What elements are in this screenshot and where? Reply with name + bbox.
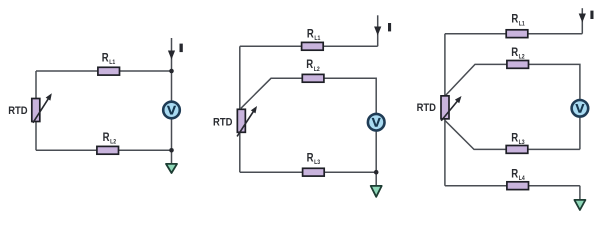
resistor RL3 — [506, 146, 528, 154]
label RL1 — [307, 28, 321, 42]
node: junction top right — [169, 69, 174, 74]
current arrow I (down) — [374, 27, 381, 36]
label RL1 — [102, 53, 116, 67]
svg-text:L2: L2 — [314, 66, 320, 73]
wire: ground stem — [579, 186, 581, 200]
ground (circuit 1) — [166, 164, 177, 173]
svg-text:R: R — [307, 28, 314, 40]
resistor RL2 — [302, 74, 324, 82]
wire: ground stem — [171, 150, 173, 163]
svg-text:R: R — [307, 153, 314, 165]
svg-text:RTD: RTD — [8, 105, 27, 117]
label RL1 — [511, 14, 524, 28]
svg-text:R: R — [102, 53, 109, 65]
wire: left vertical (RTD branch) — [35, 71, 37, 150]
resistor RL2 — [97, 146, 119, 154]
wire: diagonal RTD top to RL2 row — [445, 64, 580, 149]
svg-text:L2: L2 — [110, 139, 116, 146]
resistor RL4 — [507, 182, 529, 190]
svg-text:L1: L1 — [519, 20, 525, 27]
svg-text:L4: L4 — [519, 175, 525, 182]
node: junction bottom right — [169, 148, 174, 153]
label RL2 — [306, 59, 320, 73]
wire: current-in vertical — [581, 8, 583, 34]
wire: left vertical (RTD branch) — [239, 46, 241, 172]
voltmeter V3 — [572, 100, 589, 117]
label RL4 — [511, 169, 525, 183]
voltmeter V2 — [368, 114, 385, 131]
wire: current-in vertical — [377, 15, 379, 46]
voltmeter V1 — [163, 102, 180, 119]
svg-text:L1: L1 — [314, 35, 320, 42]
svg-text:L3: L3 — [519, 139, 525, 146]
label RL3 — [511, 132, 525, 146]
current arrow I (down) — [168, 51, 175, 60]
wire: right vertical (current in / voltmeter branch) — [171, 38, 173, 150]
resistor RL1 — [506, 30, 528, 38]
wire: left vertical (RTD branch) — [444, 34, 446, 186]
node: junction bottom right — [374, 170, 379, 175]
wire: ground stem — [375, 172, 377, 185]
RTD element (variable resistor) — [441, 94, 464, 121]
label I — [590, 11, 593, 19]
label I — [180, 44, 183, 53]
resistor RL1 — [98, 67, 120, 75]
svg-text:R: R — [103, 132, 110, 144]
ground (circuit 3) — [574, 200, 585, 210]
label I — [388, 23, 391, 31]
wire: top horizontal (through RL1) — [36, 70, 172, 72]
svg-text:RTD: RTD — [417, 102, 436, 114]
wire: diagonal RTD bottom to RL3 row — [445, 121, 580, 150]
wire: diagonal RTD top to RL2 row — [241, 78, 376, 172]
label RL2 — [511, 47, 524, 61]
svg-text:L1: L1 — [109, 59, 115, 66]
current arrow I (down) — [579, 14, 586, 23]
svg-text:R: R — [511, 169, 518, 181]
RTD element (variable resistor) — [237, 104, 259, 136]
wire: bottom horizontal (through RL3) — [240, 171, 376, 173]
label RL2 — [103, 132, 117, 146]
svg-text:RTD: RTD — [213, 116, 232, 128]
svg-text:R: R — [511, 132, 518, 144]
ground (circuit 2) — [371, 186, 382, 197]
resistor RL3 — [303, 168, 325, 176]
svg-text:L2: L2 — [519, 54, 525, 61]
wire: bottom horizontal (through RL4) — [445, 185, 580, 187]
wire: bottom horizontal (through RL2) — [36, 149, 172, 151]
resistor RL1 — [302, 42, 324, 50]
wire: top horizontal (through RL1) — [240, 45, 378, 47]
svg-text:L3: L3 — [314, 159, 320, 166]
svg-text:R: R — [306, 59, 313, 71]
wire: top horizontal (through RL1) — [445, 33, 582, 35]
RTD element (variable resistor) — [32, 92, 54, 123]
resistor RL2 — [507, 61, 529, 69]
label RL3 — [307, 153, 321, 167]
